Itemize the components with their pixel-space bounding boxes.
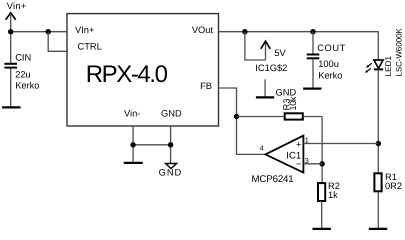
- svg-text:Vin-: Vin-: [124, 108, 140, 118]
- svg-text:VIn+: VIn+: [75, 25, 94, 35]
- svg-text:1k: 1k: [328, 190, 338, 200]
- LED LED1: [365, 60, 383, 73]
- node junction 5V branch: [242, 29, 247, 34]
- node junction FB/R3: [234, 114, 239, 119]
- svg-text:COUT: COUT: [317, 43, 346, 53]
- wire FB to divider: [219, 88, 266, 154]
- svg-text:MCP6241: MCP6241: [252, 174, 294, 185]
- svg-text:Kerko: Kerko: [318, 70, 342, 80]
- label R2: [328, 181, 340, 200]
- wire GND pin: [170, 126, 172, 164]
- svg-text:LSC-W6000K: LSC-W6000K: [395, 28, 404, 77]
- svg-text:100u: 100u: [318, 59, 339, 69]
- svg-text:RPX-4.0: RPX-4.0: [86, 61, 168, 88]
- svg-text:4: 4: [260, 143, 264, 152]
- wire R3 to R2: [321, 117, 323, 184]
- wire 5V branch: [245, 32, 266, 60]
- svg-text:GND: GND: [276, 87, 297, 97]
- svg-text:Kerko: Kerko: [15, 81, 39, 91]
- svg-text:LED1: LED1: [384, 55, 393, 76]
- capacitor COUT: [307, 55, 320, 59]
- ground at COUT: [303, 87, 321, 89]
- svg-text:5V: 5V: [274, 48, 286, 58]
- wire COUT bottom to ground: [312, 59, 314, 89]
- svg-text:CIN: CIN: [15, 53, 31, 63]
- svg-text:+: +: [296, 140, 301, 150]
- wire R3 right: [304, 116, 322, 118]
- svg-text:22u: 22u: [15, 69, 31, 79]
- resistor R3: [285, 113, 303, 119]
- wire CIN bottom to ground: [10, 68, 12, 107]
- label R1: [385, 172, 402, 191]
- node junction Vin-: [130, 142, 135, 147]
- ground bar at Vin-: [124, 162, 143, 164]
- resistor R2: [318, 183, 325, 201]
- wire Vin+ rail to regulator VIn+ pin: [11, 31, 67, 33]
- wire op-amp - input: [303, 163, 322, 165]
- regulator U: RPX-4.0 box: [67, 14, 219, 126]
- svg-text:IC1G$2: IC1G$2: [255, 63, 287, 73]
- ground symbol GND triangle: [166, 164, 177, 169]
- wire COUT top: [312, 32, 314, 54]
- wire R2 to ground: [321, 201, 323, 229]
- node junction GND: [168, 142, 173, 147]
- wire VOut rail: [219, 32, 379, 60]
- svg-text:GND: GND: [159, 168, 183, 178]
- wire Vin- pin: [132, 126, 134, 163]
- wire R1 to ground: [377, 192, 379, 229]
- node junction at CIN: [8, 29, 13, 34]
- node junction COUT branch: [310, 29, 315, 34]
- svg-text:10k: 10k: [288, 96, 298, 110]
- wire between ground pins: [133, 144, 171, 146]
- wire R3 left: [237, 116, 284, 118]
- supply symbol VIN+ arrow: [6, 13, 16, 20]
- wire LED to R1: [377, 69, 379, 172]
- ground at CIN: [2, 106, 20, 108]
- svg-text:Vin+: Vin+: [7, 1, 27, 11]
- supply symbol 5V arrow: [261, 41, 270, 60]
- node junction op-amp + input: [376, 141, 381, 146]
- svg-text:0R2: 0R2: [385, 181, 402, 191]
- ground stub IC1G$2: [264, 79, 266, 97]
- ground at R2: [313, 228, 331, 230]
- wire op-amp + input: [303, 143, 378, 145]
- ground at R1: [369, 228, 387, 230]
- wire supply to CIN top: [10, 14, 12, 64]
- ground bar IC1G$2: [256, 96, 274, 98]
- op-amp IC1: [265, 136, 303, 173]
- label COUT value: [317, 43, 346, 80]
- wire CTRL branch: [48, 32, 67, 52]
- svg-text:FB: FB: [200, 81, 212, 91]
- svg-text:CTRL: CTRL: [78, 42, 102, 52]
- label CIN value: [15, 53, 39, 91]
- svg-text:IC1: IC1: [286, 150, 301, 161]
- node junction CTRL branch: [46, 29, 51, 34]
- emission arrows: [368, 63, 372, 66]
- node junction inverting input: [319, 161, 324, 166]
- svg-text:VOut: VOut: [192, 25, 214, 35]
- resistor R1: [374, 173, 381, 191]
- capacitor CIN: [4, 64, 17, 68]
- svg-text:GND: GND: [161, 108, 182, 118]
